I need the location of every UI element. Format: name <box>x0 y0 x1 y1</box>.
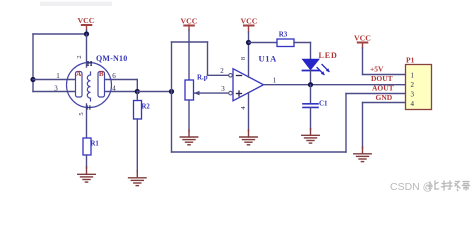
QM-N10 electrode B <box>98 72 105 98</box>
LED D1 <box>302 59 321 85</box>
wire sensor pin 5 (bottom H) <box>86 104 88 138</box>
wire to op-amp pin2 horizontal <box>208 74 229 76</box>
VCC power port VCC1 (sensor) <box>78 16 95 30</box>
svg-text:4: 4 <box>112 85 116 93</box>
svg-text:VCC: VCC <box>354 34 371 43</box>
svg-text:P1: P1 <box>406 56 415 65</box>
svg-text:R2: R2 <box>142 104 151 111</box>
svg-text:3: 3 <box>411 90 415 98</box>
node junction sensor output <box>135 89 140 94</box>
op-amp plus sign <box>237 91 242 96</box>
wire node A down to bottom bus <box>171 92 173 153</box>
node junction VCC3 <box>246 40 251 45</box>
ground GND3 under R.p <box>180 130 198 145</box>
svg-text:3: 3 <box>54 85 58 93</box>
wire VCC4 to P1 pin1 <box>363 48 406 75</box>
svg-text:B: B <box>99 70 104 78</box>
wire sensor pin 6 <box>105 79 138 81</box>
wire sensor pin 1 <box>33 79 76 81</box>
wire R2 to ground <box>136 119 138 172</box>
svg-text:4: 4 <box>240 106 247 110</box>
svg-text:+5V: +5V <box>370 65 384 74</box>
svg-text:AOUT: AOUT <box>372 84 394 93</box>
resistor R2 <box>134 101 142 120</box>
QM-N10 heater coil <box>87 72 90 101</box>
potentiometer R.p <box>185 80 194 100</box>
svg-text:2: 2 <box>411 81 415 89</box>
wire op-amp output to P1 DOUT <box>264 84 406 86</box>
LED emission arrows <box>317 65 330 76</box>
wire sensor pin 4 <box>105 91 138 93</box>
node A junction (sensor output / AOUT tap) <box>169 89 174 94</box>
svg-text:2: 2 <box>220 67 224 75</box>
svg-text:5: 5 <box>78 112 85 115</box>
R.p wiper arrow <box>194 91 229 96</box>
wire R2 top <box>136 92 138 101</box>
svg-text:U1A: U1A <box>259 54 278 64</box>
svg-text:R.p: R.p <box>197 74 208 82</box>
ground GND6 (P1) <box>354 147 372 162</box>
ground GND1 under R1 <box>78 167 96 182</box>
svg-text:H: H <box>87 59 93 68</box>
svg-text:6: 6 <box>112 72 116 80</box>
svg-text:VCC: VCC <box>78 16 95 25</box>
wire bottom AOUT bus <box>172 94 406 153</box>
VCC power port VCC4 (P1) <box>354 34 371 49</box>
pin 3 end circle <box>229 91 233 95</box>
svg-text:GND: GND <box>376 93 393 102</box>
wire op-amp pin4 down <box>248 93 250 131</box>
wire pin6 down to pin4 node <box>136 80 138 92</box>
svg-text:VCC: VCC <box>241 17 258 26</box>
svg-text:8: 8 <box>240 57 247 60</box>
ground GND5 under C1 <box>302 129 320 144</box>
svg-text:VCC: VCC <box>181 17 198 26</box>
svg-text:2: 2 <box>76 55 83 58</box>
wire R3 to LED corner <box>294 43 311 60</box>
VCC power port VCC3 (op-amp/R3) <box>241 17 258 33</box>
wire sensor pin 3 <box>33 91 76 93</box>
svg-text:4: 4 <box>411 100 415 108</box>
op-amp U1A triangle <box>233 69 264 101</box>
svg-text:1: 1 <box>411 71 415 79</box>
wire R1 to ground <box>86 155 88 168</box>
node junction left pin1 <box>30 77 35 82</box>
svg-text:1: 1 <box>273 76 277 84</box>
wire VCC1 stem to junction <box>86 30 88 34</box>
svg-text:CSDN @: CSDN @ <box>390 181 433 193</box>
wire sensor pin 2 (top H) <box>86 34 88 67</box>
wire node A up <box>171 42 173 92</box>
wire VCC3 to R3 <box>249 42 278 44</box>
node junction at VCC1 <box>84 31 89 36</box>
svg-text:R3: R3 <box>279 31 288 39</box>
connector P1 box <box>406 65 432 110</box>
wire left vertical to sensor pins <box>32 34 34 92</box>
faint top watermark smudge <box>40 2 112 7</box>
wire bridge over Rp <box>172 41 208 43</box>
wire sensor output to node A <box>137 91 171 93</box>
svg-text:A: A <box>76 70 81 78</box>
svg-text:R1: R1 <box>91 141 100 148</box>
svg-text:LED: LED <box>319 51 338 60</box>
watermark glyph 冬 <box>455 182 460 191</box>
svg-text:DOUT: DOUT <box>371 74 393 83</box>
ground GND2 under R2 <box>129 171 147 186</box>
resistor R1 <box>83 138 91 155</box>
resistor R3 <box>277 39 294 47</box>
watermark glyph 比 <box>428 181 439 190</box>
svg-text:1: 1 <box>56 72 60 80</box>
svg-text:C1: C1 <box>319 100 328 108</box>
node junction output/LED/C1 <box>308 82 313 87</box>
watermark glyph 特 <box>442 181 453 190</box>
wire VCC3 stem <box>248 32 250 43</box>
svg-text:QM-N10: QM-N10 <box>96 54 127 63</box>
gas sensor QM-N10 body circle <box>67 63 112 108</box>
wire top-left horizontal <box>33 33 87 35</box>
wire R.p bottom to ground <box>188 100 190 131</box>
wire VCC2 to Rp top <box>188 30 190 80</box>
watermark glyph 哥 <box>463 182 470 191</box>
op-amp minus sign <box>237 75 242 77</box>
ground GND4 under op-amp <box>240 130 258 145</box>
VCC power port VCC2 (Rp) <box>181 17 198 31</box>
wire op-amp pin8 to VCC3 node <box>248 43 250 78</box>
capacitor C1 <box>303 85 318 130</box>
svg-text:3: 3 <box>221 85 225 93</box>
wire P1 GND pin to ground <box>363 103 406 149</box>
QM-N10 electrode A <box>76 72 83 98</box>
wire to op-amp pin2 vertical <box>207 42 209 75</box>
svg-text:H: H <box>86 105 91 112</box>
pin 2 end circle <box>229 74 233 78</box>
